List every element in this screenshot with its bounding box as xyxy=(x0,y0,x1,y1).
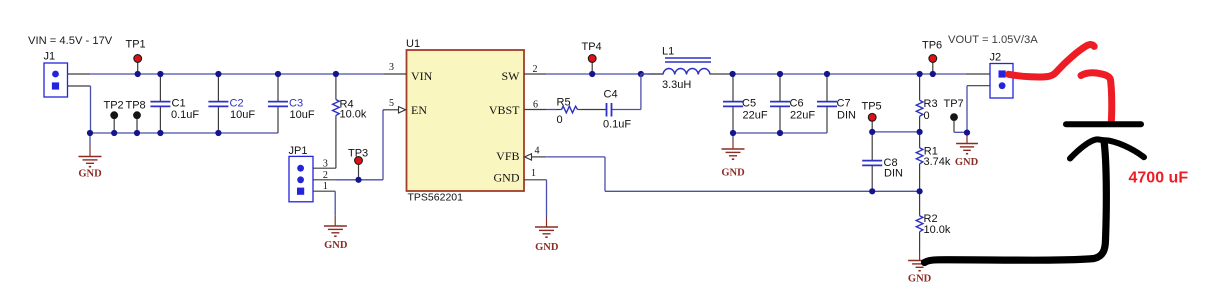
junction R3 bottom xyxy=(917,129,923,135)
resistor R2 xyxy=(916,191,951,252)
svg-text:R3: R3 xyxy=(924,98,938,110)
junction C6 bottom xyxy=(777,130,783,136)
testpoint TP7 xyxy=(944,98,964,132)
junction C7 top xyxy=(824,71,830,77)
ground GND input xyxy=(78,133,102,180)
capacitor C8 xyxy=(862,132,903,192)
annotation capacitor curved plate xyxy=(1070,139,1144,158)
wire TP5 node xyxy=(872,131,919,133)
junction TP5 node xyxy=(869,129,875,135)
ground GND TP7 xyxy=(955,133,979,168)
wire EN net xyxy=(336,110,384,180)
svg-text:J2: J2 xyxy=(990,52,1002,64)
svg-text:C6: C6 xyxy=(790,97,804,109)
junction C4 branch xyxy=(638,71,644,77)
svg-text:1: 1 xyxy=(531,168,536,179)
wire TP7 node xyxy=(954,131,967,133)
U1 pin SW name xyxy=(502,69,521,83)
svg-text:0.1uF: 0.1uF xyxy=(603,119,631,131)
J2 pin2 stub xyxy=(967,85,990,87)
testpoint TP1 xyxy=(126,39,146,74)
svg-text:0: 0 xyxy=(924,110,930,122)
svg-text:L1: L1 xyxy=(662,46,674,58)
junction C3 top xyxy=(275,71,281,77)
testpoint TP4 xyxy=(582,41,602,74)
svg-text:10uF: 10uF xyxy=(230,109,255,121)
svg-text:C7: C7 xyxy=(837,97,851,109)
wire VOUT rail xyxy=(733,73,966,75)
junction C2 bottom xyxy=(215,130,221,136)
U1 pin 1 stub GND xyxy=(524,168,547,180)
svg-text:TPS562201: TPS562201 xyxy=(408,192,464,204)
testpoint TP2 xyxy=(104,99,124,133)
svg-text:GND: GND xyxy=(955,157,979,168)
junction R4 top xyxy=(333,71,339,77)
svg-text:VOUT = 1.05V/3A: VOUT = 1.05V/3A xyxy=(948,34,1038,46)
junction TP8 xyxy=(134,130,140,136)
JP1 pin 1 label xyxy=(323,181,328,192)
resistor R4 xyxy=(333,74,367,168)
annotation value 4700 uF xyxy=(1129,170,1189,187)
junction C5 top xyxy=(730,71,736,77)
svg-text:C4: C4 xyxy=(604,88,618,100)
svg-text:22uF: 22uF xyxy=(743,109,768,121)
connector JP1 xyxy=(289,145,314,202)
junction TP3 xyxy=(355,177,361,183)
svg-text:DIN: DIN xyxy=(837,109,856,121)
annotation capacitor top plate xyxy=(1066,121,1141,127)
inductor L1 xyxy=(641,46,733,91)
svg-text:C3: C3 xyxy=(289,97,303,109)
svg-text:TP8: TP8 xyxy=(126,99,146,111)
wire JP1 pin1 down xyxy=(334,191,336,215)
connector J1 xyxy=(44,51,68,98)
junction R3 top xyxy=(917,71,923,77)
svg-text:VBST: VBST xyxy=(489,103,520,117)
svg-text:10.0k: 10.0k xyxy=(924,224,951,236)
junction C8 bottom xyxy=(869,188,875,194)
resistor R3 xyxy=(916,74,937,132)
junction C1 top xyxy=(157,71,163,77)
svg-text:TP5: TP5 xyxy=(862,100,882,112)
svg-text:3.3uH: 3.3uH xyxy=(662,79,691,91)
svg-text:DIN: DIN xyxy=(884,167,903,179)
connector J2 xyxy=(990,52,1014,98)
resistor R5 xyxy=(546,96,583,126)
capacitor C5 xyxy=(723,74,768,133)
annotation red wire stroke 1 xyxy=(1009,45,1095,77)
U1 pin VBST name xyxy=(489,103,520,117)
svg-text:SW: SW xyxy=(502,69,521,83)
U1 pin GND name xyxy=(494,171,520,185)
svg-text:GND: GND xyxy=(535,242,559,253)
svg-text:10uF: 10uF xyxy=(290,109,315,121)
wire SW net xyxy=(546,73,663,75)
junction C6 top xyxy=(777,71,783,77)
svg-text:3: 3 xyxy=(389,62,394,73)
svg-text:C1: C1 xyxy=(172,97,186,109)
svg-text:TP2: TP2 xyxy=(104,99,124,111)
svg-text:TP6: TP6 xyxy=(922,40,942,52)
capacitor C7 xyxy=(817,74,856,133)
junction TP2 xyxy=(111,130,117,136)
junction TP4 xyxy=(589,71,595,77)
svg-text:R5: R5 xyxy=(557,96,571,108)
wire VIN rail xyxy=(90,73,384,75)
svg-text:TP7: TP7 xyxy=(944,98,964,110)
U1 pin VIN name xyxy=(411,69,433,83)
JP1 pin 3 label xyxy=(323,159,328,170)
svg-text:GND: GND xyxy=(78,169,102,180)
svg-text:VFB: VFB xyxy=(496,149,519,163)
resistor R1 xyxy=(916,132,951,191)
svg-text:EN: EN xyxy=(411,103,427,117)
wire VFB net xyxy=(546,157,919,191)
ground GND output caps xyxy=(721,133,745,179)
junction C2 top xyxy=(215,71,221,77)
svg-text:C5: C5 xyxy=(742,97,756,109)
svg-text:10.0k: 10.0k xyxy=(340,108,367,120)
junction TP6 xyxy=(930,71,936,77)
ground GND U1 xyxy=(535,217,559,253)
svg-text:C2: C2 xyxy=(230,97,244,109)
svg-text:VIN = 4.5V - 17V: VIN = 4.5V - 17V xyxy=(28,35,113,47)
junction C1 bottom xyxy=(157,130,163,136)
svg-text:GND: GND xyxy=(324,240,348,251)
JP1 pin3 stub xyxy=(313,167,336,169)
wire U1 GND down xyxy=(546,180,548,217)
wire input bottom rail xyxy=(90,132,278,134)
testpoint TP8 xyxy=(126,99,146,133)
U1 pin 3 stub xyxy=(384,62,407,74)
ground GND JP1 xyxy=(324,215,348,251)
capacitor C6 xyxy=(770,74,815,133)
junction C5 bottom xyxy=(730,130,736,136)
junction R1 bottom xyxy=(917,188,923,194)
JP1 pin2 stub xyxy=(313,179,335,181)
svg-text:1: 1 xyxy=(323,181,328,192)
annotation capacitor lead to ground xyxy=(925,141,1107,263)
svg-text:0: 0 xyxy=(557,114,563,126)
svg-text:3.74k: 3.74k xyxy=(924,156,951,168)
svg-text:TP1: TP1 xyxy=(126,39,146,51)
annotation red wire stroke 2 xyxy=(1081,73,1112,122)
junction TP1 xyxy=(135,71,141,77)
svg-text:6: 6 xyxy=(533,99,538,110)
svg-text:4: 4 xyxy=(535,145,540,156)
capacitor C2 xyxy=(208,74,255,133)
svg-text:U1: U1 xyxy=(406,38,420,50)
U1 pin 4 stub VFB xyxy=(525,145,547,160)
testpoint TP3 xyxy=(348,148,368,180)
JP1 pin1 stub xyxy=(313,190,335,192)
svg-text:GND: GND xyxy=(721,168,745,179)
svg-text:GND: GND xyxy=(494,171,520,185)
svg-text:2: 2 xyxy=(323,170,328,181)
wire J2 pin2 down xyxy=(966,86,968,133)
capacitor C4 xyxy=(583,88,632,130)
svg-text:0.1uF: 0.1uF xyxy=(171,109,199,121)
junction TP7 ground xyxy=(964,130,970,136)
U1 pin 2 stub SW xyxy=(524,64,546,75)
svg-text:TP4: TP4 xyxy=(582,41,602,53)
wire J1 pin2 drop xyxy=(90,86,92,133)
svg-text:VIN: VIN xyxy=(411,69,433,83)
junction GND input xyxy=(87,130,93,136)
svg-text:22uF: 22uF xyxy=(790,109,815,121)
U1 pin 5 stub EN xyxy=(383,98,406,113)
J1 pin1 stub xyxy=(68,73,91,75)
U1 pin VFB name xyxy=(496,149,519,163)
U1 pin EN name xyxy=(411,103,427,117)
svg-text:5: 5 xyxy=(389,98,394,109)
ground GND R2 xyxy=(908,252,932,285)
capacitor C3 xyxy=(268,74,315,133)
testpoint TP5 xyxy=(862,100,882,132)
op-amp U1 TPS562201 xyxy=(406,38,524,204)
wire output cap bottom rail xyxy=(733,132,827,134)
JP1 pin 2 label xyxy=(323,170,328,181)
capacitor C1 xyxy=(150,74,199,133)
svg-text:JP1: JP1 xyxy=(289,145,308,157)
svg-text:J1: J1 xyxy=(44,51,56,63)
testpoint TP6 xyxy=(922,40,942,74)
svg-text:2: 2 xyxy=(533,64,538,75)
U1 pin 6 stub VBST xyxy=(524,99,546,110)
svg-text:4700 uF: 4700 uF xyxy=(1129,170,1189,187)
svg-text:GND: GND xyxy=(908,274,932,285)
net label VIN xyxy=(28,35,113,47)
wire C4 branch xyxy=(612,74,641,110)
J2 pin1 stub xyxy=(966,73,990,75)
J1 pin2 stub xyxy=(68,85,91,87)
net label VOUT xyxy=(948,34,1038,46)
